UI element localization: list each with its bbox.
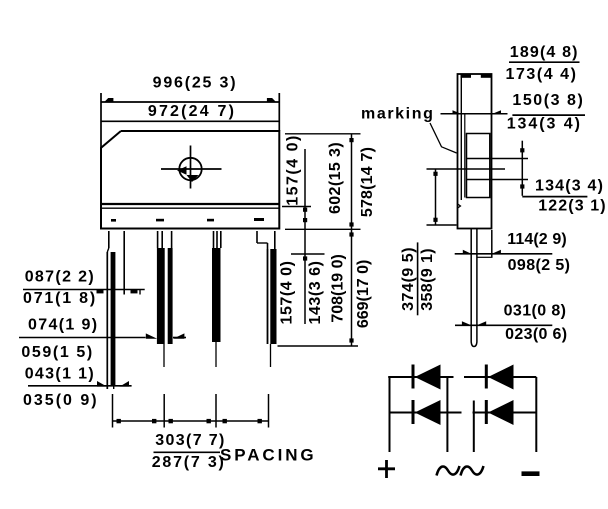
pin 3 bbox=[212, 231, 221, 367]
ext line body top right bbox=[285, 133, 361, 135]
svg-text:114(2 9): 114(2 9) bbox=[507, 231, 567, 248]
side inner horizontal middle bbox=[427, 168, 506, 170]
wire + lead bbox=[389, 377, 391, 452]
side inner horizontal lower bbox=[467, 179, 529, 181]
terminal + bbox=[378, 460, 395, 478]
svg-text:578(14 7): 578(14 7) bbox=[359, 147, 376, 217]
dim 031/023 bbox=[455, 321, 552, 325]
svg-text:134(3 4): 134(3 4) bbox=[535, 178, 604, 195]
side inner vertical bbox=[464, 114, 466, 198]
wire ~ lead 1 bbox=[446, 377, 448, 452]
spacing extension lines bbox=[113, 394, 269, 428]
wire second rail right segment bbox=[473, 412, 537, 414]
svg-text:358(9 1): 358(9 1) bbox=[419, 248, 436, 311]
side inner rect bbox=[467, 134, 490, 198]
side pin bbox=[471, 229, 477, 347]
leader 087/071 bbox=[23, 290, 145, 295]
fraction bar 189/173 bbox=[509, 61, 580, 63]
ext line base step right bbox=[282, 206, 311, 208]
svg-text:602(15 3): 602(15 3) bbox=[327, 142, 344, 214]
svg-text:374(9 5): 374(9 5) bbox=[400, 247, 417, 311]
side body outline bbox=[458, 74, 492, 229]
svg-text:157(4 0): 157(4 0) bbox=[279, 261, 296, 325]
svg-text:150(3 8): 150(3 8) bbox=[512, 92, 584, 109]
svg-text:708(19 0): 708(19 0) bbox=[330, 254, 347, 323]
svg-text:059(1 5): 059(1 5) bbox=[21, 344, 93, 361]
side pin wide edge bbox=[477, 230, 493, 258]
leader 074/059 with arrows at pin2 bbox=[19, 333, 186, 338]
marking leader bbox=[430, 123, 457, 153]
svg-text:043(1 1): 043(1 1) bbox=[25, 366, 95, 383]
side top width ticks bbox=[461, 74, 492, 78]
ext line body bottom right bbox=[285, 228, 361, 230]
terminal ~ 1 bbox=[437, 466, 460, 476]
dim 374/358 left of side view bbox=[427, 169, 457, 225]
mounting hole bbox=[161, 146, 222, 189]
dim 996/972 extension line right bbox=[278, 93, 280, 131]
diode D1 bbox=[412, 365, 441, 390]
svg-text:143(3 6): 143(3 6) bbox=[307, 261, 324, 325]
svg-text:669(17 0): 669(17 0) bbox=[355, 260, 372, 329]
wire top rail left segment bbox=[388, 376, 453, 378]
spacing dim line bbox=[113, 419, 269, 423]
diode D4 bbox=[485, 400, 514, 425]
svg-text:972(24 7): 972(24 7) bbox=[148, 103, 236, 120]
fraction bar 150/134 bbox=[512, 114, 585, 116]
svg-text:marking: marking bbox=[361, 106, 434, 123]
diode D3 bbox=[412, 400, 441, 425]
svg-text:071(1 8): 071(1 8) bbox=[23, 290, 97, 307]
svg-text:074(1 9): 074(1 9) bbox=[28, 317, 98, 334]
svg-text:189(4 8): 189(4 8) bbox=[510, 44, 579, 61]
svg-text:122(3 1): 122(3 1) bbox=[538, 198, 606, 215]
side body inner edge line bbox=[460, 74, 462, 200]
fraction bar / leader 134/122 bbox=[522, 196, 587, 198]
ext line pin shoulder right bbox=[291, 253, 325, 255]
body outline front view bbox=[101, 131, 279, 229]
svg-text:173(4 4): 173(4 4) bbox=[506, 66, 578, 83]
wire - lead bbox=[535, 377, 537, 452]
pin 4 bbox=[257, 231, 277, 367]
dim line 134/122 right bbox=[520, 141, 524, 196]
pin 1 (+ lead) bbox=[107, 231, 124, 389]
svg-text:098(2 5): 098(2 5) bbox=[508, 257, 571, 274]
svg-text:023(0 6): 023(0 6) bbox=[505, 326, 567, 343]
dim line 996 bbox=[101, 98, 279, 102]
pin 2 bbox=[157, 231, 173, 367]
base dash marks bbox=[111, 218, 264, 222]
svg-text:134(3 4): 134(3 4) bbox=[507, 116, 582, 133]
side inner horizontal upper bbox=[467, 158, 529, 160]
fraction bar 303/287 bbox=[154, 451, 221, 453]
dim line 602/708 vertical bbox=[349, 134, 353, 346]
svg-text:087(2 2): 087(2 2) bbox=[25, 269, 95, 286]
leader 043/035 with arrows at pin1 tip bbox=[28, 381, 132, 387]
terminal - bbox=[522, 471, 540, 476]
dim line 157/143 vertical bbox=[303, 149, 307, 324]
svg-text:157(4 0): 157(4 0) bbox=[285, 134, 302, 206]
svg-text:035(0 9): 035(0 9) bbox=[23, 392, 99, 409]
wire second rail left segment bbox=[390, 412, 462, 414]
svg-text:996(25 3): 996(25 3) bbox=[153, 75, 238, 92]
wire top rail right segment bbox=[464, 376, 536, 378]
ext line pin tip right bbox=[278, 345, 359, 347]
dim line 150/134 horizontal bbox=[441, 110, 508, 114]
svg-text:303(7 7): 303(7 7) bbox=[155, 432, 225, 449]
svg-text:287(7 3): 287(7 3) bbox=[152, 454, 226, 471]
fraction bar 972 bbox=[101, 120, 280, 122]
wire ~ lead 2 bbox=[473, 401, 475, 453]
fraction bar 374/358 vertical bbox=[417, 242, 419, 315]
diode D2 bbox=[485, 365, 514, 390]
svg-text:SPACING: SPACING bbox=[220, 446, 317, 465]
terminal ~ 2 bbox=[461, 466, 484, 476]
body base double line bbox=[101, 204, 279, 208]
svg-text:031(0 8): 031(0 8) bbox=[504, 302, 567, 319]
dim 996/972 extension line left bbox=[100, 93, 102, 148]
side notch bbox=[457, 204, 461, 209]
dim 114/098 bbox=[455, 250, 553, 254]
